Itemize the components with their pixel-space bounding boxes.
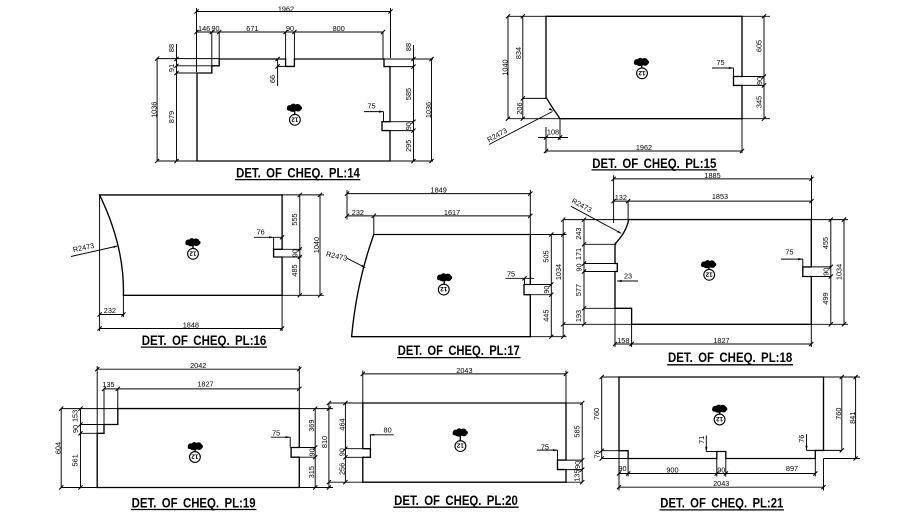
leader arrows PL:18 xyxy=(617,231,803,283)
svg-text:12: 12 xyxy=(291,115,299,122)
dimension lines PL:14 xyxy=(157,8,433,161)
svg-text:90: 90 xyxy=(338,448,347,456)
dimension lines PL:19 xyxy=(61,366,333,488)
svg-text:71: 71 xyxy=(697,436,706,444)
dimension ticks PL:19 xyxy=(59,367,331,490)
svg-text:800: 800 xyxy=(333,24,345,33)
svg-text:1962: 1962 xyxy=(278,4,294,13)
panel PL:14 xyxy=(150,4,434,180)
svg-text:76: 76 xyxy=(257,228,265,237)
thickness stamp PL:20 xyxy=(453,428,468,436)
svg-text:455: 455 xyxy=(821,237,830,249)
dimension ticks PL:17 xyxy=(345,192,554,339)
thickness stamp PL:17 xyxy=(437,273,452,281)
svg-text:1040: 1040 xyxy=(312,237,321,253)
svg-text:108: 108 xyxy=(547,128,559,137)
svg-text:76: 76 xyxy=(797,435,806,443)
dimension ticks PL:21 xyxy=(600,375,858,489)
svg-text:90: 90 xyxy=(573,461,582,469)
svg-text:604: 604 xyxy=(54,442,63,454)
svg-text:193: 193 xyxy=(574,310,583,322)
svg-text:90: 90 xyxy=(291,249,300,257)
svg-text:135: 135 xyxy=(102,380,114,389)
panel PL:15 xyxy=(485,14,770,171)
dimension lines PL:16 xyxy=(71,195,324,331)
dimension lines PL:15 xyxy=(489,16,770,153)
svg-text:315: 315 xyxy=(307,466,316,478)
thickness stamp PL:21 xyxy=(712,405,727,413)
thickness stamp PL:19 xyxy=(188,442,203,450)
svg-text:75: 75 xyxy=(785,248,793,257)
svg-text:841: 841 xyxy=(848,412,857,424)
svg-text:900: 900 xyxy=(666,466,678,475)
svg-text:879: 879 xyxy=(167,111,176,123)
svg-text:577: 577 xyxy=(574,284,583,296)
leader arrows PL:14 xyxy=(379,111,384,113)
svg-text:505: 505 xyxy=(542,250,551,262)
svg-text:135: 135 xyxy=(572,470,581,482)
leader arrows PL:20 xyxy=(370,434,558,452)
svg-text:90: 90 xyxy=(286,24,294,33)
svg-text:75: 75 xyxy=(367,102,375,111)
svg-text:12: 12 xyxy=(456,442,464,449)
svg-text:146: 146 xyxy=(198,24,210,33)
svg-text:DET. OF CHEQ. PL:17: DET. OF CHEQ. PL:17 xyxy=(398,343,520,358)
svg-text:232: 232 xyxy=(104,306,116,315)
svg-text:66: 66 xyxy=(268,75,277,83)
svg-text:90: 90 xyxy=(618,464,626,473)
dimension ticks PL:20 xyxy=(343,372,584,485)
svg-text:R2473: R2473 xyxy=(325,249,348,263)
svg-text:DET. OF CHEQ. PL:20: DET. OF CHEQ. PL:20 xyxy=(394,493,518,508)
svg-text:1848: 1848 xyxy=(183,321,199,330)
svg-text:760: 760 xyxy=(834,408,843,420)
panel PL:20 xyxy=(329,366,584,508)
svg-text:605: 605 xyxy=(754,40,763,52)
svg-text:671: 671 xyxy=(246,24,258,33)
plate outline PL:20 xyxy=(363,403,566,482)
svg-text:243: 243 xyxy=(574,228,583,240)
svg-text:12: 12 xyxy=(638,69,646,76)
svg-text:1036: 1036 xyxy=(150,102,159,118)
svg-text:561: 561 xyxy=(71,454,80,466)
svg-text:DET. OF CHEQ. PL:14: DET. OF CHEQ. PL:14 xyxy=(236,165,360,180)
dimension lines PL:21 xyxy=(602,377,860,491)
svg-text:1849: 1849 xyxy=(431,186,447,195)
thickness stamp PL:18 xyxy=(701,260,716,268)
plate outline PL:15 xyxy=(546,16,742,118)
leader arrows PL:21 xyxy=(705,446,807,452)
svg-text:897: 897 xyxy=(786,464,798,473)
svg-text:DET. OF CHEQ. PL:18: DET. OF CHEQ. PL:18 xyxy=(668,350,793,365)
thickness stamp PL:14 xyxy=(287,104,302,112)
leader arrows PL:16 xyxy=(113,236,273,248)
svg-text:232: 232 xyxy=(352,208,364,217)
svg-text:90: 90 xyxy=(404,122,413,130)
dimension ticks PL:14 xyxy=(155,9,434,163)
svg-text:1034: 1034 xyxy=(554,264,563,280)
svg-text:499: 499 xyxy=(821,292,830,304)
svg-text:2043: 2043 xyxy=(713,479,729,488)
svg-text:256: 256 xyxy=(337,463,346,475)
plate outline PL:17 xyxy=(352,235,531,337)
dimension ticks PL:16 xyxy=(98,193,323,331)
svg-text:DET. OF CHEQ. PL:15: DET. OF CHEQ. PL:15 xyxy=(592,156,716,171)
svg-text:90: 90 xyxy=(755,77,764,85)
svg-text:369: 369 xyxy=(307,420,316,432)
svg-text:464: 464 xyxy=(337,418,346,430)
svg-text:585: 585 xyxy=(572,425,581,437)
dimension lines PL:20 xyxy=(329,371,582,483)
panel PL:17 xyxy=(325,186,566,359)
svg-text:75: 75 xyxy=(541,443,549,452)
plate outline PL:19 xyxy=(97,409,299,488)
svg-text:1962: 1962 xyxy=(636,143,652,152)
svg-text:171: 171 xyxy=(574,248,583,260)
svg-text:75: 75 xyxy=(272,429,280,438)
svg-text:1034: 1034 xyxy=(834,264,843,280)
svg-text:90: 90 xyxy=(717,465,725,474)
svg-text:12: 12 xyxy=(716,415,724,422)
svg-text:R2473: R2473 xyxy=(485,126,508,144)
svg-text:76: 76 xyxy=(592,450,601,458)
svg-text:DET. OF CHEQ. PL:19: DET. OF CHEQ. PL:19 xyxy=(132,496,256,511)
svg-text:2043: 2043 xyxy=(456,366,472,375)
svg-text:295: 295 xyxy=(404,140,413,152)
svg-text:760: 760 xyxy=(592,408,601,420)
svg-text:555: 555 xyxy=(290,213,299,225)
svg-text:12: 12 xyxy=(705,270,713,277)
plate outline PL:18 xyxy=(615,220,811,325)
svg-text:DET. OF CHEQ. PL:21: DET. OF CHEQ. PL:21 xyxy=(660,495,783,510)
svg-text:1617: 1617 xyxy=(444,208,460,217)
svg-text:1040: 1040 xyxy=(500,59,509,75)
svg-text:585: 585 xyxy=(404,88,413,100)
leader arrows PL:15 xyxy=(549,67,734,111)
svg-text:2042: 2042 xyxy=(190,361,206,370)
svg-text:1827: 1827 xyxy=(713,336,729,345)
svg-text:90: 90 xyxy=(307,448,316,456)
svg-text:12: 12 xyxy=(189,249,197,256)
svg-text:12: 12 xyxy=(191,453,199,460)
svg-text:153: 153 xyxy=(71,410,80,422)
dimension ticks PL:15 xyxy=(506,14,766,153)
thickness stamp PL:16 xyxy=(185,238,200,246)
svg-text:DET. OF CHEQ. PL:16: DET. OF CHEQ. PL:16 xyxy=(142,333,267,348)
plate outline PL:21 xyxy=(619,377,824,459)
svg-text:90: 90 xyxy=(211,24,219,33)
svg-text:80: 80 xyxy=(384,426,392,435)
svg-text:88: 88 xyxy=(167,44,176,52)
dimension lines PL:18 xyxy=(563,175,848,347)
panel PL:19 xyxy=(54,361,333,510)
svg-text:90: 90 xyxy=(71,425,80,433)
svg-text:90: 90 xyxy=(575,263,584,271)
panel PL:21 xyxy=(592,375,860,510)
thickness stamp PL:15 xyxy=(634,58,649,66)
svg-text:90: 90 xyxy=(821,268,830,276)
plate outline PL:14 xyxy=(197,59,390,161)
svg-text:132: 132 xyxy=(615,193,627,202)
svg-text:91: 91 xyxy=(167,64,176,72)
dimension lines PL:17 xyxy=(347,190,567,337)
leader arrows PL:17 xyxy=(361,265,366,268)
svg-text:485: 485 xyxy=(290,264,299,276)
svg-text:12: 12 xyxy=(440,285,448,292)
svg-text:1853: 1853 xyxy=(712,192,728,201)
leader arrows PL:19 xyxy=(286,436,291,438)
svg-text:1885: 1885 xyxy=(704,171,720,180)
svg-text:810: 810 xyxy=(320,436,329,448)
svg-text:88: 88 xyxy=(404,43,413,51)
svg-text:445: 445 xyxy=(542,310,551,322)
dimension ticks PL:18 xyxy=(561,177,846,346)
svg-text:23: 23 xyxy=(624,272,632,281)
svg-text:834: 834 xyxy=(514,47,523,59)
svg-text:75: 75 xyxy=(507,270,515,279)
svg-text:345: 345 xyxy=(754,96,763,108)
panel PL:18 xyxy=(554,171,848,365)
plate outline PL:16 xyxy=(100,195,283,295)
svg-text:1036: 1036 xyxy=(424,102,433,118)
svg-text:158: 158 xyxy=(617,336,629,345)
svg-text:75: 75 xyxy=(716,58,724,67)
svg-text:90: 90 xyxy=(542,286,551,294)
svg-text:206: 206 xyxy=(515,102,524,114)
svg-text:1827: 1827 xyxy=(197,380,213,389)
panel PL:16 xyxy=(71,193,324,348)
